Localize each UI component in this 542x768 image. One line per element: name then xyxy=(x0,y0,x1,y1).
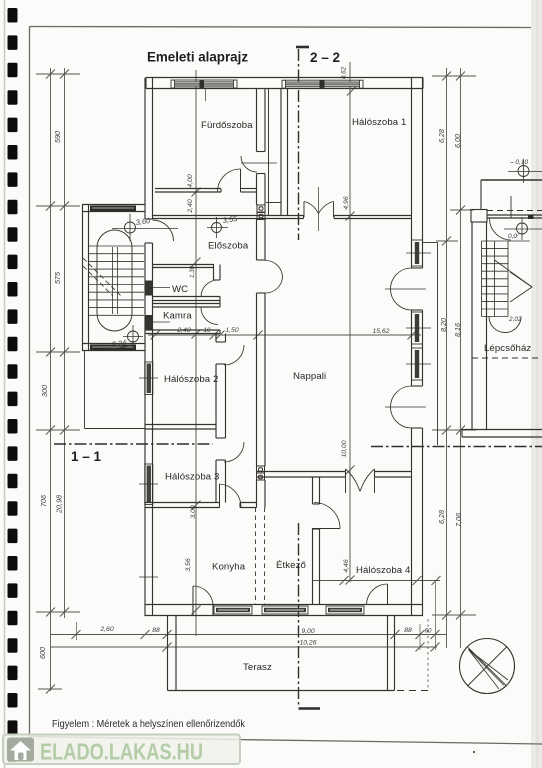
svg-text:4,00: 4,00 xyxy=(187,174,194,187)
Haloszoba 3 door leaf xyxy=(219,484,221,507)
Terasz west wall xyxy=(168,616,177,691)
svg-text:300: 300 xyxy=(40,385,49,397)
west wall window (Haloszoba 2) xyxy=(145,362,153,395)
svg-text:1,50: 1,50 xyxy=(225,327,238,334)
Konyha bottom door arc xyxy=(193,586,213,606)
svg-text:10,26: 10,26 xyxy=(299,640,316,647)
open terrace below stairs xyxy=(85,351,146,429)
stair treads xyxy=(89,246,145,315)
compass cross lines xyxy=(468,647,507,686)
Nappali south wall xyxy=(257,472,346,478)
Etkezo door leaf xyxy=(312,528,340,530)
stair center rails xyxy=(112,247,114,314)
left dimension chain lines xyxy=(51,68,65,691)
svg-text:Hálószoba 4: Hálószoba 4 xyxy=(356,565,411,576)
Konyha bottom door leaf xyxy=(192,586,194,606)
svg-text:2 – 2: 2 – 2 xyxy=(310,50,340,65)
svg-text:– 0,10: – 0,10 xyxy=(509,159,528,166)
Haloszoba 2 door arc xyxy=(224,345,244,365)
Lepcsohaz dashed line lower xyxy=(472,357,542,359)
svg-text:15,62: 15,62 xyxy=(372,328,389,335)
right dimension ticks xyxy=(432,72,476,620)
Haloszoba 4 bottom door arc xyxy=(367,584,388,605)
east wall window 3 xyxy=(412,348,423,380)
level mark circle 3,60 xyxy=(125,222,136,233)
Furdoszoba east wall upper xyxy=(257,89,266,152)
outer wall bottom xyxy=(145,605,424,616)
Terasz bottom edge xyxy=(168,690,395,692)
horizontal dimension line y335 with 15.62 xyxy=(148,334,421,336)
watermark house icon xyxy=(7,738,34,762)
svg-text:6,28: 6,28 xyxy=(437,129,446,143)
svg-text:6,00: 6,00 xyxy=(453,134,462,148)
kitchen fixture boxes upper xyxy=(257,205,265,220)
svg-text:ELADO.LAKAS.HU: ELADO.LAKAS.HU xyxy=(40,739,203,765)
Lepcsohaz door leaf xyxy=(510,196,512,219)
bottom dimension line 1 (y634.5) xyxy=(51,634,447,636)
Terasz dashed continuation xyxy=(397,690,429,692)
stair annex top window xyxy=(90,206,136,212)
Lepcsohaz dashed lintel xyxy=(487,210,542,212)
svg-text:Lépcsőház: Lépcsőház xyxy=(484,343,531,354)
bottom wall window 1 xyxy=(214,606,252,614)
Nappali west wall lower segment xyxy=(257,293,266,466)
Nappali west wall upper segment xyxy=(257,219,266,260)
Lepcsohaz west wall cap xyxy=(471,210,487,223)
east wall window ticks xyxy=(406,253,431,364)
Furdoszoba east door arc xyxy=(241,156,257,172)
watermark bar xyxy=(3,735,240,765)
stair break line (diagonal) xyxy=(83,258,121,296)
svg-text:2,40: 2,40 xyxy=(187,199,194,213)
svg-text:8,16: 8,16 xyxy=(453,323,462,337)
benchmark circle lower xyxy=(517,223,528,234)
svg-text:9,00: 9,00 xyxy=(301,628,314,635)
outer wall top xyxy=(146,78,423,89)
left dimension ticks xyxy=(36,70,80,694)
svg-text:88: 88 xyxy=(152,627,160,634)
compass circle xyxy=(460,639,515,694)
balcony edge line xyxy=(423,242,438,244)
svg-text:Étkező: Étkező xyxy=(276,560,306,571)
Haloszoba 1 double door arcs xyxy=(304,202,319,214)
right scan edge strip xyxy=(531,0,542,768)
svg-text:Terasz: Terasz xyxy=(243,662,272,673)
Haloszoba 1 west wall xyxy=(281,89,288,216)
vertical axis line x350 xyxy=(349,62,351,582)
svg-text:Előszoba: Előszoba xyxy=(208,241,249,252)
svg-text:Emeleti alaprajz: Emeleti alaprajz xyxy=(147,50,248,65)
section line 1-1 (left) xyxy=(54,443,213,445)
Nappali-Etkezo double door xyxy=(346,469,375,493)
Haloszoba 3 door arc from Konyha xyxy=(220,484,242,507)
Furdoszoba south wall xyxy=(155,189,221,193)
WC / Kamra double wall xyxy=(153,297,221,301)
svg-text:3,56: 3,56 xyxy=(185,558,192,571)
Konyha north wall (Haloszoba 3 south) xyxy=(145,503,220,508)
stair annex bottom wall xyxy=(83,344,146,351)
svg-text:4,96: 4,96 xyxy=(343,196,350,209)
stair well obround xyxy=(97,230,132,331)
svg-text:Hálószoba 3: Hálószoba 3 xyxy=(165,472,219,483)
Lepcsohaz door arc xyxy=(490,219,512,241)
outer wall east middle xyxy=(412,310,423,386)
benchmark circle upper xyxy=(518,166,529,177)
spiral binding holes xyxy=(8,8,18,762)
WC top wall xyxy=(153,265,215,268)
svg-text:706: 706 xyxy=(39,495,48,507)
Etkezo - Haloszoba 4 wall xyxy=(313,477,320,504)
svg-text:Kamra: Kamra xyxy=(163,311,192,322)
Nappali west double door arcs xyxy=(265,260,283,277)
Haloszoba 3 door arc xyxy=(224,442,244,462)
east wall double door 2 xyxy=(391,386,412,407)
svg-text:8,20: 8,20 xyxy=(439,318,448,332)
kitchen fixture boxes lower xyxy=(257,466,265,480)
bottom wall window 2 xyxy=(262,606,308,614)
svg-text:WC: WC xyxy=(172,284,188,295)
central vertical axis line x196 xyxy=(195,70,197,636)
svg-text:Hálószoba 2: Hálószoba 2 xyxy=(164,374,218,385)
right dimension chain lines xyxy=(447,68,461,648)
svg-text:600: 600 xyxy=(38,647,47,659)
east wall window 1 xyxy=(412,240,423,266)
Haloszoba 1 door center line xyxy=(318,187,320,231)
WC east wall xyxy=(214,265,221,281)
Haloszoba 4 bottom door leaf xyxy=(387,584,389,605)
svg-text:590: 590 xyxy=(53,131,62,143)
top wall window left center mark xyxy=(205,89,207,102)
Kamra door arc xyxy=(201,308,218,325)
svg-text:Hálószoba 1: Hálószoba 1 xyxy=(352,117,406,128)
outer wall east lower xyxy=(412,428,423,616)
section line 2-2 (top) xyxy=(298,49,300,240)
corridor west wall lower xyxy=(216,460,226,503)
svg-text:10,00: 10,00 xyxy=(341,440,348,457)
level mark circle lower stairs 3,24 xyxy=(128,331,139,342)
Lepcsohaz north wall inner xyxy=(487,215,542,218)
Furdoszoba south door arc xyxy=(218,169,241,192)
compass needle fan xyxy=(469,650,509,690)
outer wall east upper xyxy=(412,78,423,269)
outer wall west xyxy=(145,78,153,220)
svg-text:7,06: 7,06 xyxy=(454,513,463,527)
west wall window (Kamra) xyxy=(145,315,153,331)
small dot xyxy=(473,751,475,753)
Kamra bottom wall xyxy=(145,330,221,334)
Lepcsohaz stairs xyxy=(482,241,531,317)
Haloszoba 1 double door leaves xyxy=(304,202,334,218)
section line 1-1 (right) xyxy=(371,446,542,448)
wall between Eloszoba and Nappali north xyxy=(153,216,304,219)
shaft wall lines xyxy=(268,89,270,217)
svg-text:Konyha: Konyha xyxy=(212,562,246,573)
bottom dimension line 2 (y647) with 10.26 xyxy=(51,646,438,648)
Furdoszoba south door leaf xyxy=(240,169,242,192)
horizontal dimension line y580 xyxy=(312,580,440,582)
Etkezo door arc xyxy=(314,503,340,529)
svg-text:2,60: 2,60 xyxy=(99,626,113,633)
svg-text:4,46: 4,46 xyxy=(343,559,350,572)
Furdoszoba east door leaf line xyxy=(241,162,277,164)
east wall window 2 xyxy=(412,312,423,344)
Lepcsohaz stair bottom semicircle xyxy=(489,317,521,333)
svg-text:88: 88 xyxy=(404,627,412,634)
Lepcsohaz west wall xyxy=(472,222,487,430)
Lepcsohaz west upper stub xyxy=(480,180,482,210)
Furdoszoba east wall lower / Eloszoba west wall of Nappali xyxy=(257,174,266,206)
wall between Haloszoba 2 and 3 xyxy=(145,425,217,430)
east wall double door 1 xyxy=(391,268,412,289)
level line through entry xyxy=(112,228,178,230)
stair annex bottom window xyxy=(90,345,136,351)
corridor west wall upper xyxy=(216,334,226,343)
WC door arc xyxy=(201,280,218,297)
Konyha-Etkezo dashed partition xyxy=(256,508,265,605)
west wall window (WC) xyxy=(145,281,153,296)
top wall window left xyxy=(171,80,237,88)
svg-text:1 – 1: 1 – 1 xyxy=(71,449,102,464)
Lepcsohaz bottom wall xyxy=(462,430,542,438)
dim extension lines bottom xyxy=(77,582,436,650)
left paper edge line xyxy=(4,0,6,768)
svg-text:Fürdőszoba: Fürdőszoba xyxy=(201,120,253,131)
ticks on axis x196 xyxy=(192,188,201,615)
Terasz east wall xyxy=(388,616,395,691)
svg-text:6,28: 6,28 xyxy=(437,510,446,524)
bottom wall window 3 xyxy=(326,606,364,614)
entry door arc from staircase xyxy=(153,220,174,241)
west wall entry door jambs xyxy=(145,218,153,220)
corridor west wall middle xyxy=(216,364,226,438)
section line 2-2 (bottom) xyxy=(298,523,300,707)
Nappali west wall bottom stub to Konyha wall xyxy=(257,480,266,508)
svg-text:20,98: 20,98 xyxy=(55,495,64,514)
top wall window right xyxy=(282,80,363,88)
svg-text:575: 575 xyxy=(53,271,62,284)
Lepcsohaz top wall xyxy=(481,179,542,181)
stair annex west wall xyxy=(83,204,89,351)
west window sill ticks xyxy=(139,288,170,578)
Lepcsohaz stair arrow xyxy=(510,272,532,302)
stair annex top wall xyxy=(83,205,146,212)
svg-text:Figyelem : Méretek a helyszíne: Figyelem : Méretek a helyszínen ellenőri… xyxy=(52,718,246,730)
level mark circle 3,55 xyxy=(212,223,222,233)
svg-text:Nappali: Nappali xyxy=(293,371,326,382)
west wall window (Haloszoba 3) xyxy=(145,464,153,505)
svg-text:2,02: 2,02 xyxy=(508,316,522,323)
